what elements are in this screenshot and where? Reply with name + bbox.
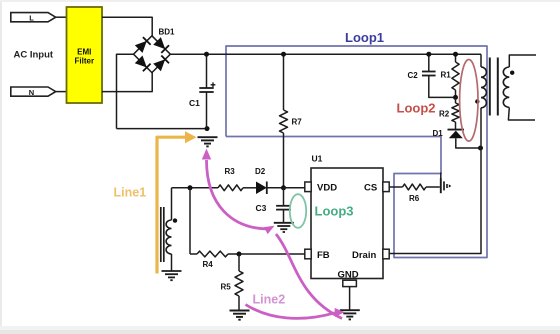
svg-text:Loop1: Loop1 [345, 30, 384, 45]
U1 pin GND [338, 270, 359, 287]
transformer primary winding [481, 54, 486, 108]
svg-text:VDD: VDD [317, 183, 337, 194]
top rail wire [170, 53, 481, 55]
primary phase dot [475, 99, 479, 103]
wire EMI bottom to bridge [102, 73, 152, 92]
junction C2 top [426, 52, 431, 57]
terminal N [11, 87, 56, 97]
R6 label [409, 194, 420, 203]
svg-text:C3: C3 [256, 203, 267, 213]
R5 label [221, 283, 232, 292]
U1 pin CS [364, 182, 389, 194]
U1 pin VDD [305, 182, 337, 194]
secondary phase dot [510, 71, 514, 75]
wire GND pin to ground [349, 287, 351, 311]
svg-text:EMI: EMI [77, 48, 91, 57]
ground main (C1) [198, 137, 218, 146]
R2 label [439, 110, 450, 119]
Line2 arc R5 ground to GND ground [246, 305, 345, 319]
capacitor C3 [276, 188, 291, 223]
junction VDD node [281, 185, 286, 190]
R1 label [441, 71, 452, 80]
junction R7 top [281, 52, 286, 57]
svg-text:Drain: Drain [352, 250, 376, 261]
svg-text:R2: R2 [439, 110, 450, 119]
bridge diode top-left [135, 37, 151, 53]
terminal L [11, 13, 56, 23]
wire EMI top to bridge [102, 17, 152, 36]
wire primary bottom to drain [390, 108, 482, 254]
junction FB node [237, 252, 242, 257]
capacitor C2 [422, 54, 456, 97]
junction drain node [478, 146, 483, 151]
BD1 label [159, 28, 176, 37]
svg-text:D2: D2 [255, 167, 266, 176]
transformer secondary winding [503, 55, 536, 120]
junction R1 bottom [453, 95, 458, 100]
svg-text:GND: GND [338, 270, 359, 281]
svg-text:Loop3: Loop3 [315, 204, 354, 219]
svg-text:R5: R5 [221, 283, 232, 292]
bridge diode bottom-left [135, 56, 151, 72]
bottom rail wire [117, 128, 208, 130]
svg-text:L: L [29, 14, 34, 23]
bridge diode top-right [153, 37, 169, 53]
capacitor C1 [199, 54, 215, 128]
D2 label [255, 167, 266, 176]
svg-text:D1: D1 [433, 129, 444, 138]
junction R1 top [453, 52, 458, 57]
wire node to R4 [190, 188, 197, 254]
wire CS to R6 [389, 186, 402, 188]
svg-text:CS: CS [364, 183, 377, 194]
wire bridge left corner to bottom rail [117, 54, 134, 128]
svg-text:Filter: Filter [75, 57, 95, 66]
C3 label [256, 203, 267, 213]
wire L to EMI [56, 16, 67, 18]
resistor R7 [280, 54, 288, 187]
wire stub to CS ground [440, 173, 442, 180]
wire R4 to FB [228, 253, 305, 255]
Line1 arrow [157, 131, 197, 273]
diode D1 [448, 130, 481, 148]
transformer core [490, 58, 498, 116]
wire VDD node to pin [284, 187, 305, 189]
bridge rectifier BD1 frame [134, 36, 171, 73]
Loop3 ellipse [290, 194, 306, 228]
Line1 label [114, 186, 147, 200]
aux phase dot [173, 218, 177, 222]
Loop1 annotation outline (blue loop) [226, 46, 487, 258]
C2 label [408, 71, 419, 80]
resistor R3 [218, 185, 243, 191]
svg-text:R1: R1 [441, 71, 452, 80]
svg-text:U1: U1 [312, 154, 323, 164]
wire R6 to ground [426, 186, 440, 188]
svg-text:Loop2: Loop2 [397, 101, 436, 116]
wire aux node to R3 [172, 187, 219, 189]
Loop3 label [315, 204, 354, 219]
AC Input label [14, 50, 54, 61]
Line2 arc to main ground [202, 149, 275, 235]
ground GND [340, 310, 360, 319]
aux winding [166, 188, 171, 271]
R3 label [225, 167, 236, 176]
resistor R5 [235, 254, 243, 311]
resistor R2 [452, 97, 459, 129]
junction aux node [188, 185, 193, 190]
ground R5 [230, 311, 250, 320]
svg-text:R4: R4 [203, 260, 214, 269]
svg-text:N: N [29, 88, 34, 97]
Line2 label [253, 293, 286, 307]
svg-text:R7: R7 [292, 118, 303, 127]
resistor R1 [452, 54, 459, 97]
resistor R6 [403, 184, 427, 190]
diode D2 [243, 182, 284, 195]
svg-text:Line1: Line1 [114, 186, 147, 200]
junction C1 top [204, 52, 209, 57]
svg-text:FB: FB [317, 250, 330, 261]
ground C3 [274, 223, 294, 232]
ground CS (sideways) [441, 178, 452, 193]
U1 pin Drain [352, 249, 389, 261]
R7 label [292, 118, 303, 127]
svg-text:Line2: Line2 [253, 293, 286, 307]
svg-text:R3: R3 [225, 167, 236, 176]
R4 label [203, 260, 214, 269]
svg-text:BD1: BD1 [159, 28, 176, 37]
EMI filter block [67, 7, 103, 103]
Loop2 label [397, 101, 436, 116]
Line2 arc ground to C3 ground [276, 234, 342, 319]
svg-text:C2: C2 [408, 71, 419, 80]
ground aux [162, 271, 182, 280]
svg-text:R6: R6 [409, 194, 420, 203]
aux core [161, 207, 164, 262]
wire N to EMI [56, 91, 67, 93]
op-amp U1 body [311, 154, 383, 279]
svg-text:C1: C1 [189, 98, 200, 108]
Loop2 ellipse [460, 60, 478, 142]
resistor R4 [197, 251, 228, 257]
Loop1 label [345, 30, 384, 45]
U1 pin FB [305, 249, 330, 261]
bridge diode bottom-right [153, 56, 169, 72]
svg-text:AC Input: AC Input [14, 50, 54, 61]
C1 label [189, 98, 200, 108]
junction bottom rail [205, 126, 210, 131]
D1 label [433, 129, 444, 138]
